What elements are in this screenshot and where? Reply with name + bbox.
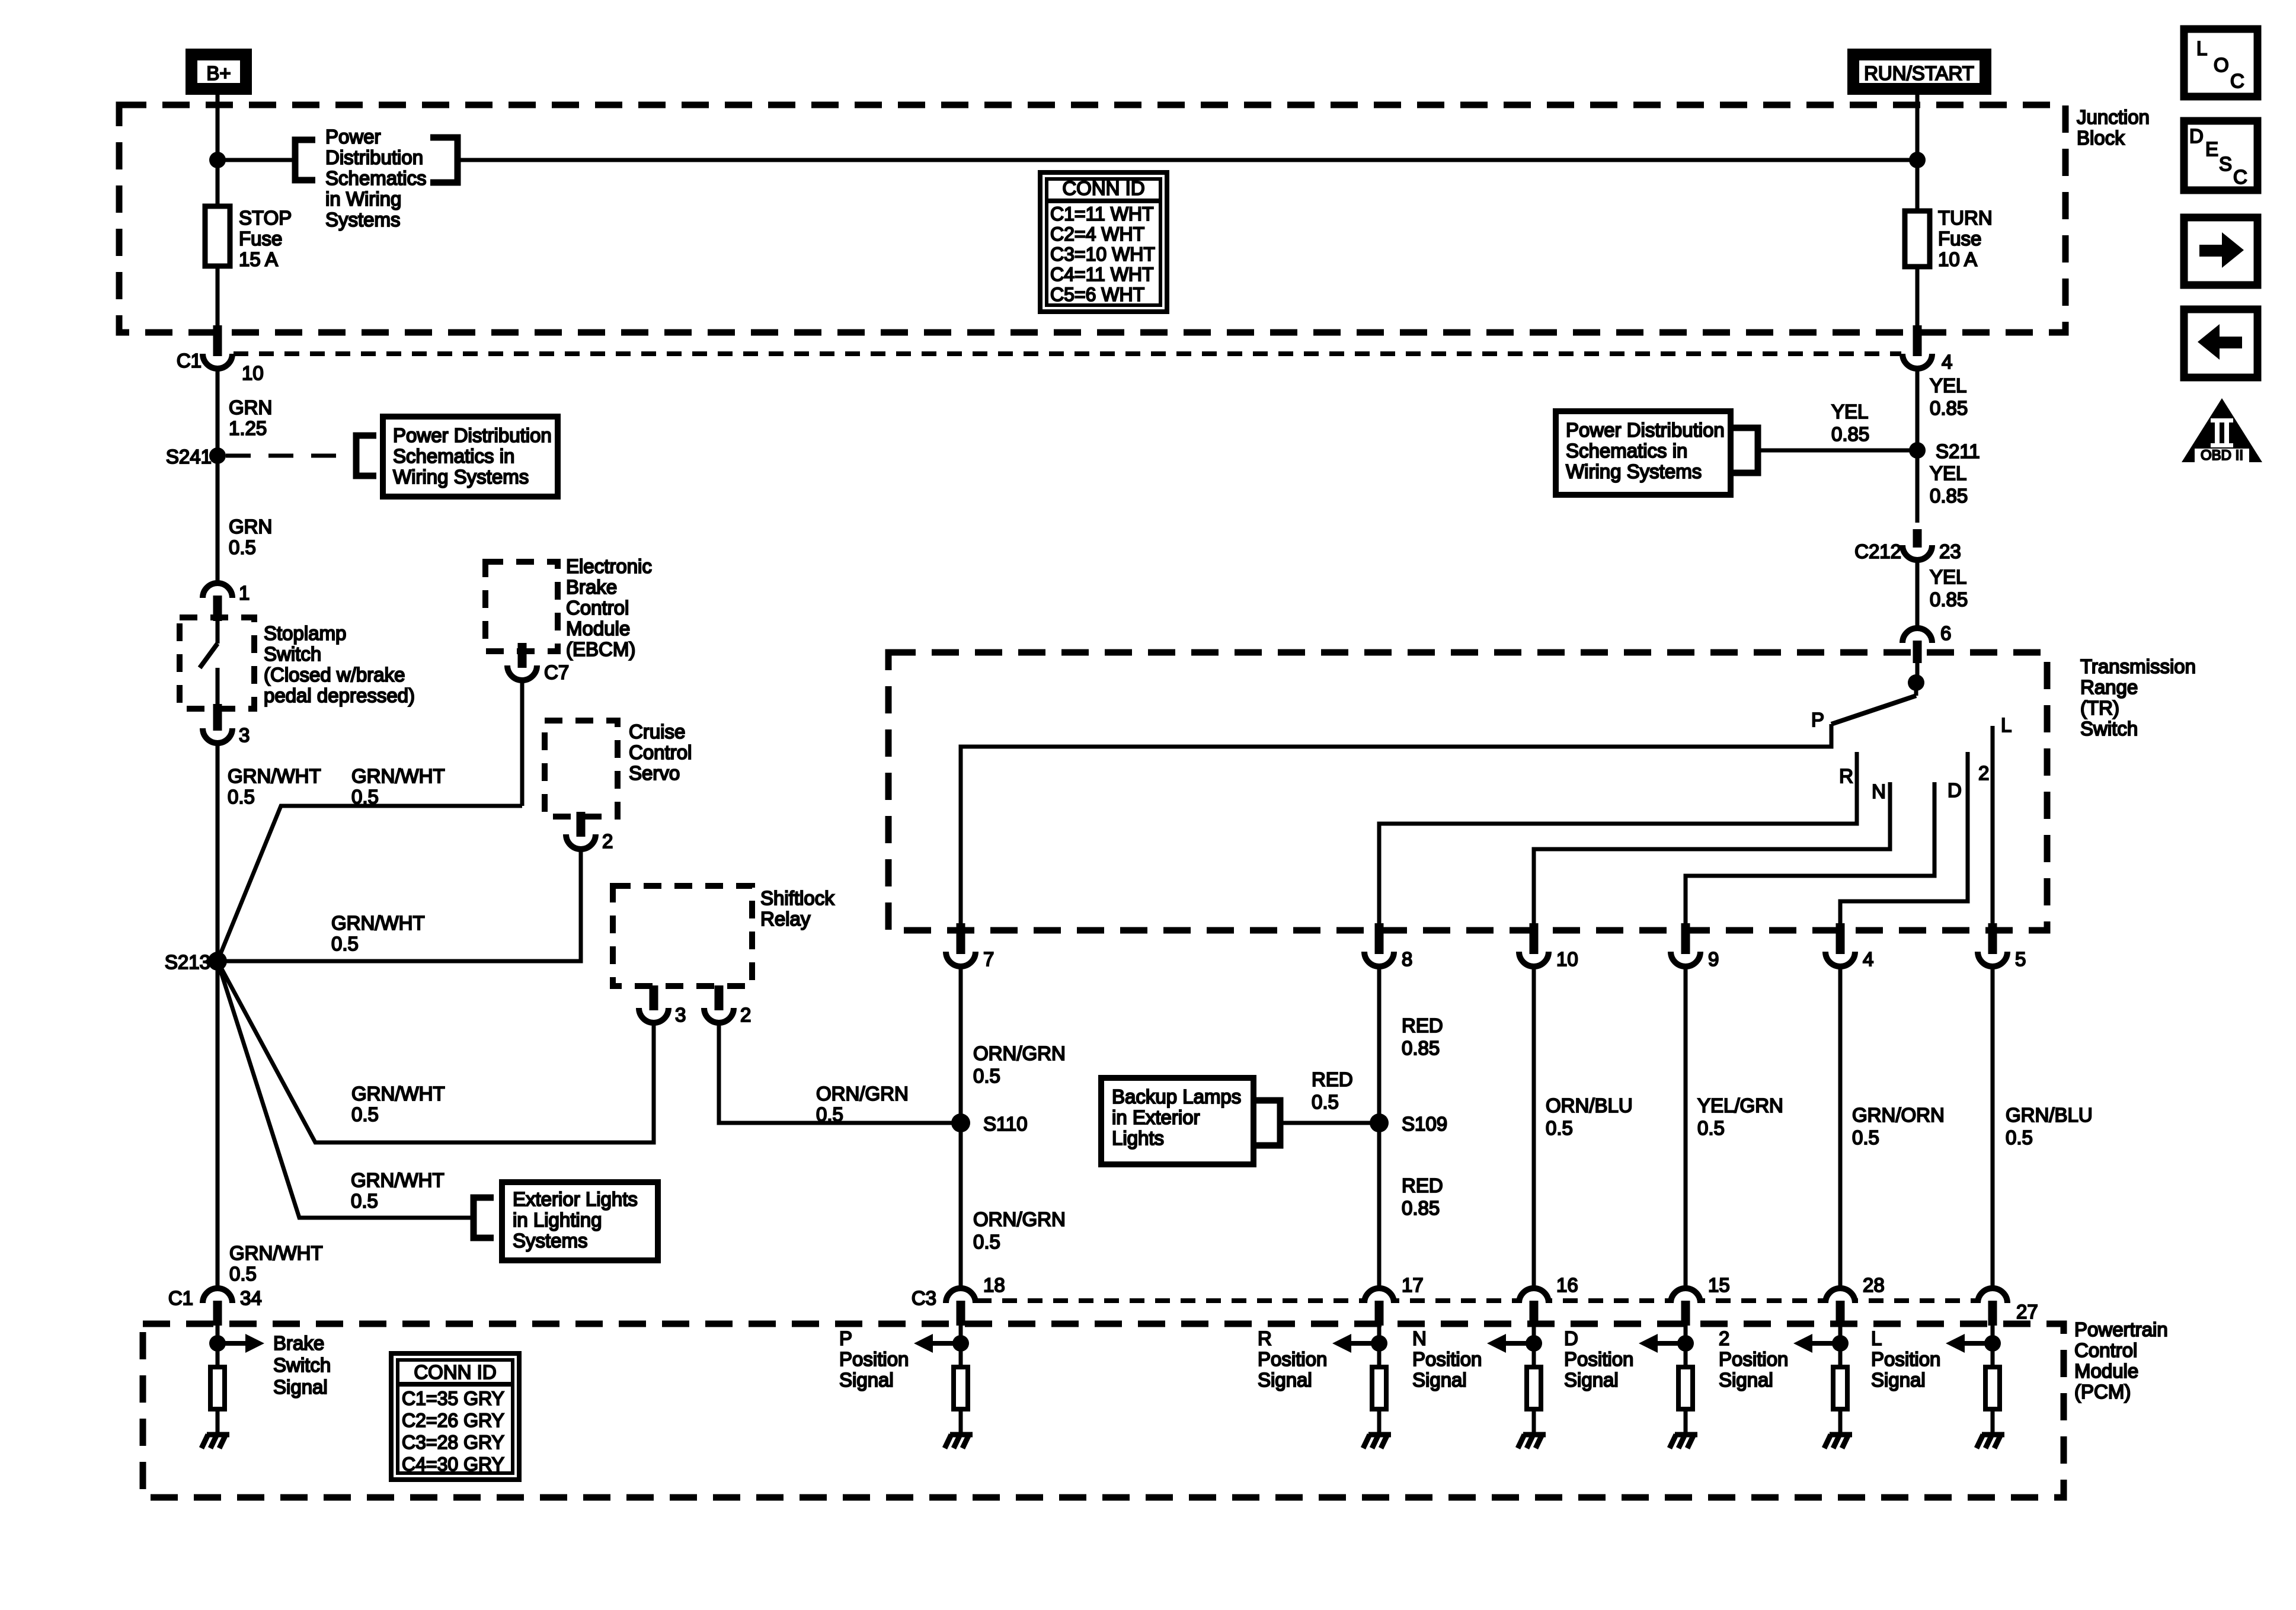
power symbol RUN/START [1853,55,1985,89]
connector TR pin 9 [1671,952,1700,966]
svg-text:S211: S211 [1936,440,1980,462]
svg-text:S213: S213 [165,951,210,973]
node PCM input 18 [952,1335,969,1352]
wire L contact to pin 5 [1991,726,1995,923]
node TR common [1908,674,1924,691]
ground 17 [1368,1432,1391,1438]
icon OBD II triangle [2182,398,2262,462]
wire PCM input [1991,1326,1995,1366]
wire to ground [1991,1409,1995,1435]
connector TR pin 10 [1519,952,1549,966]
splice S241 [209,447,226,464]
connector PCM pin 34 [203,1288,232,1303]
node RUN/START tee junction [1909,152,1926,168]
svg-text:10: 10 [1556,948,1578,970]
wire TR common stub [1914,683,1918,696]
table CONN ID (PCM) [391,1353,519,1480]
svg-text:4: 4 [1942,351,1952,373]
box power distribution schematics (left) [383,417,558,497]
svg-text:CONN ID: CONN ID [1062,177,1144,199]
wire switch upper contact [216,621,220,644]
connector C1 pin 10 [203,354,232,369]
wire to ground [216,1409,220,1435]
resistor PCM 18 [954,1367,968,1409]
svg-text:S110: S110 [983,1113,1028,1135]
wire GRN/BLU column [1991,966,1995,1288]
wire P contact to pin 7 [961,724,1831,923]
wire switch lower contact [216,668,220,706]
connector PCM pin 28 [1825,1288,1855,1303]
svg-text:D: D [2189,125,2204,147]
box power distribution schematics (right) [1556,411,1731,495]
box backup lamps in exterior lights [1101,1078,1253,1164]
wire YEL to TR switch [1916,560,1920,628]
connector PCM pin 27 [1978,1288,2007,1303]
svg-text:C: C [2233,166,2247,188]
wire S213 to EBCM C7 [218,806,522,961]
wire S213 to shiftlock relay [218,961,654,1142]
svg-text:YEL0.85: YEL0.85 [1831,401,1869,445]
connector shiftlock pin 2 [704,1008,734,1023]
svg-text:17: 17 [1402,1274,1424,1296]
arrow R position signal [1350,1341,1379,1346]
wire PCM input [216,1326,220,1366]
svg-text:L: L [2001,714,2012,736]
junction block dashed box [119,105,2065,332]
wire to ground [1377,1409,1382,1435]
svg-text:34: 34 [240,1287,262,1309]
arrow 2 position signal [1811,1341,1840,1346]
svg-text:D: D [1948,779,1962,801]
splice S213 [208,952,227,971]
connector TR pin 6 [1902,628,1932,643]
svg-text:28: 28 [1863,1274,1885,1296]
wire S213 to cruise servo [218,849,581,961]
splice S109 [1370,1113,1389,1132]
svg-text:R: R [1839,765,1853,787]
wire power distribution to RUN/START branch [458,158,1917,162]
svg-text:2: 2 [740,1004,751,1026]
svg-text:3: 3 [675,1004,686,1026]
wire to ground [1684,1409,1688,1435]
switch transmission range TR (dashed box) [888,652,2047,930]
arrow N position signal [1504,1341,1534,1346]
wire through STOP fuse [216,207,220,325]
fuse STOP 15 A [205,206,230,266]
svg-text:C1=11 WHTC2=4 WHTC3=10 WHTC4=1: C1=11 WHTC2=4 WHTC3=10 WHTC4=11 WHTC5=6 … [1050,203,1155,305]
wire to ground [1532,1409,1536,1435]
splice S110 [951,1113,970,1132]
wire R contact to pin 8 [1379,752,1857,923]
module EBCM (dashed box) [485,562,558,651]
connector TR pin 7 [946,952,976,966]
wire RED backup lamps to S109 [1280,1121,1379,1125]
wire PCM input [1838,1326,1843,1366]
wire GRN/WHT main down to C1 34 [216,743,220,1288]
ground 27 [1982,1432,2004,1438]
connector stoplamp pin 3 [203,728,232,743]
module PCM (dashed box) [143,1324,2064,1497]
wire D contact to pin 9 [1686,782,1934,923]
wire GRN [216,369,220,584]
svg-text:1: 1 [239,582,250,604]
connector PCM pin 15 [1671,1288,1700,1303]
svg-text:15: 15 [1708,1274,1730,1296]
svg-text:C: C [2230,70,2244,92]
svg-text:P: P [1811,709,1824,731]
wire GRN/ORN column [1838,966,1843,1288]
svg-text:RUN/START: RUN/START [1864,62,1974,84]
svg-text:B+: B+ [206,62,231,84]
table CONN ID (junction block) [1040,172,1167,312]
connector line C1 to 4 dotted [234,351,1901,356]
node PCM input 34 [209,1335,226,1352]
svg-text:C212: C212 [1854,540,1901,562]
ground 34 [207,1432,229,1438]
bracket backup lamps [1253,1100,1280,1145]
svg-text:C7: C7 [544,661,569,683]
svg-text:C1: C1 [168,1287,193,1309]
connector EBCM C7 [507,665,537,680]
svg-text:OBD II: OBD II [2201,447,2243,463]
fuse TURN 10 A [1905,211,1930,267]
svg-text:16: 16 [1556,1274,1578,1296]
node PCM input 28 [1832,1335,1849,1352]
wire RED column [1377,966,1382,1288]
connector PCM pin 16 [1519,1288,1549,1303]
svg-text:YEL0.85: YEL0.85 [1930,566,1968,610]
wire PCM input [1532,1326,1536,1366]
wire B+ vertical into junction block [216,95,220,207]
wire to ground [1838,1409,1843,1435]
node PCM input 27 [1984,1335,2001,1352]
svg-text:6: 6 [1940,622,1951,644]
svg-text:2: 2 [1978,762,1989,784]
svg-text:S: S [2219,153,2232,175]
svg-text:9: 9 [1708,948,1719,970]
wire power distribution to S211 [1758,449,1917,453]
svg-text:O: O [2214,54,2229,76]
wire PCM input [1684,1326,1688,1366]
svg-text:7: 7 [983,948,994,970]
svg-text:C3: C3 [912,1287,936,1309]
wire YEL from connector 4 [1916,369,1920,523]
svg-text:3: 3 [239,724,250,746]
bracket power distribution S241 [356,436,376,476]
node PCM input 15 [1677,1335,1694,1352]
svg-text:YEL0.85: YEL0.85 [1930,375,1968,419]
connector TR pin 8 [1364,952,1394,966]
wire ORN/BLU column [1532,966,1536,1288]
resistor PCM 27 [1985,1367,2000,1409]
arrow D position signal [1656,1341,1686,1346]
svg-text:S109: S109 [1402,1113,1447,1135]
connector cruise servo pin 2 [566,834,596,849]
connector PCM pin 18 [946,1288,976,1303]
ground 28 [1830,1432,1852,1438]
svg-text:S241: S241 [166,446,212,468]
connector C212 pin 23 [1902,545,1932,560]
resistor PCM 15 [1678,1367,1693,1409]
node PCM input 17 [1371,1335,1387,1352]
node PCM input 16 [1526,1335,1542,1352]
icon DESC box [2184,121,2257,190]
wire RUN/START vertical [1916,95,1920,325]
wire C7 down [520,680,525,806]
box exterior lights in lighting systems [502,1182,658,1260]
bracket power distribution right side [1731,428,1758,473]
arrow brake switch signal [218,1341,247,1346]
svg-text:23: 23 [1939,540,1961,562]
svg-text:E: E [2205,138,2218,160]
svg-text:CONN ID: CONN ID [414,1361,496,1383]
svg-text:RED0.85: RED0.85 [1402,1174,1443,1219]
wire TR switch common [1916,663,1920,683]
power symbol B+ [191,55,246,89]
svg-text:27: 27 [2016,1301,2038,1323]
module cruise control servo (dashed box) [545,721,618,817]
wire N contact to pin 10 [1534,782,1890,923]
ground 18 [950,1432,973,1438]
connector C2 pin 4 [1902,354,1932,369]
bracket power distribution left [295,140,315,180]
switch TR blade to P [1831,696,1916,724]
resistor PCM 34 [210,1367,225,1409]
icon LOC box [2184,29,2257,97]
svg-text:8: 8 [1402,948,1412,970]
wire to power distribution bracket [218,158,295,162]
bracket power distribution right [430,137,458,183]
connector shiftlock pin 3 [639,1008,669,1023]
bracket exterior lights [474,1198,494,1238]
svg-text:L: L [2196,37,2207,59]
svg-text:RED0.85: RED0.85 [1402,1014,1443,1059]
svg-text:YEL0.85: YEL0.85 [1930,462,1968,507]
switch blade [200,644,218,668]
svg-text:N: N [1872,780,1886,802]
wire S213 to exterior lights [218,961,474,1218]
node B+ tee junction [209,152,226,168]
resistor PCM 17 [1372,1367,1386,1409]
wire shiftlock 2 to S110 [719,1023,961,1123]
icon arrow right box [2184,217,2257,285]
connector TR pin 5 [1978,952,2007,966]
wire 2 contact to pin 4 [1840,752,1968,923]
wire PCM input [1377,1326,1382,1366]
resistor PCM 16 [1527,1367,1541,1409]
connector line C3 dotted [977,1298,1977,1303]
svg-text:C1=35 GRYC2=26 GRYC3=28 GRYC4=: C1=35 GRYC2=26 GRYC3=28 GRYC4=30 GRY [402,1388,504,1475]
wire PCM input [959,1326,963,1366]
svg-text:10: 10 [242,362,264,384]
icon arrow left box [2184,309,2257,377]
connector PCM pin 17 [1364,1288,1394,1303]
svg-text:BrakeSwitchSignal: BrakeSwitchSignal [273,1332,331,1398]
connector TR pin 4 [1825,952,1855,966]
svg-text:C1: C1 [177,350,202,372]
wire YEL/GRN column [1684,966,1688,1288]
ground 16 [1523,1432,1546,1438]
svg-text:5: 5 [2015,948,2026,970]
splice S211 [1909,442,1926,459]
wire dashed to power distribution [226,454,356,458]
wire N contact vertical [1888,782,1892,849]
connector stoplamp pin 1 [203,583,232,598]
wire to ground [959,1409,963,1435]
arrow P position signal [931,1341,961,1346]
arrow L position signal [1963,1341,1993,1346]
resistor PCM 28 [1833,1367,1847,1409]
wire ORN/GRN column [959,966,963,1288]
svg-text:2: 2 [602,830,613,852]
switch stoplamp (dashed box) [180,617,254,709]
svg-text:4: 4 [1863,948,1873,970]
relay shiftlock (dashed box) [613,886,752,986]
svg-text:GRN1.25: GRN1.25 [229,396,272,439]
ground 15 [1675,1432,1697,1438]
svg-text:18: 18 [983,1274,1005,1296]
